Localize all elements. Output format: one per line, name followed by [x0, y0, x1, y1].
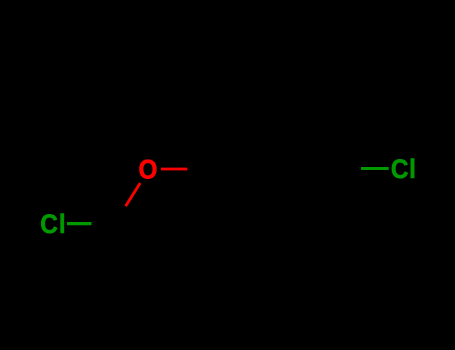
benzene ring C2-C3 bond: [244, 113, 307, 116]
bond CH2-Cl green half: [67, 222, 92, 225]
benzene ring C1-C2 bond (black, invisible on black bg): [212, 114, 244, 169]
benzene ring C3-C4 bond: [307, 114, 339, 169]
bond O-C1 black half (invisible): [187, 167, 212, 170]
bond C4-Cl black half (invisible): [338, 167, 363, 170]
atom label Cl (para ring chlorine): [391, 155, 416, 184]
atom label Cl (chloromethyl chlorine): [40, 210, 65, 239]
bond O-CH2 red half: [125, 183, 140, 207]
benzene ring C5-C6 bond: [244, 222, 307, 225]
bond O-CH2 black half (invisible): [115, 206, 126, 223]
benzene ring C4-C5 bond: [307, 169, 339, 224]
benzene ring inner double bonds (black, invisible): [252, 120, 298, 123]
benzene ring C6-C1 bond: [212, 169, 244, 224]
svg-text:Cl: Cl: [40, 210, 65, 239]
svg-text:Cl: Cl: [391, 155, 416, 184]
svg-text:O: O: [139, 155, 158, 184]
atom label O (ether oxygen): [139, 155, 158, 184]
bond C4-Cl green half: [361, 167, 389, 170]
bond O-C1 red half: [161, 168, 187, 171]
bond CH2-Cl black half (invisible): [92, 222, 115, 225]
